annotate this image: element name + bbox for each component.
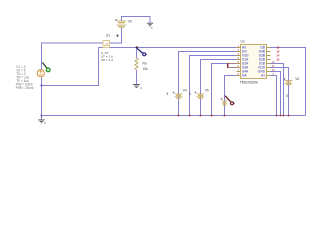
svg-text:5: 5 (189, 92, 191, 96)
svg-text:A1: A1 (261, 74, 265, 78)
svg-text:TMUX6209: TMUX6209 (240, 80, 258, 84)
svg-text:DA: DA (242, 74, 247, 78)
svg-text:U1: U1 (241, 40, 246, 44)
svg-text:PER = 20ms: PER = 20ms (16, 86, 34, 90)
svg-text:V4: V4 (183, 89, 187, 93)
svg-text:13: 13 (276, 58, 280, 62)
svg-text:Ra: Ra (143, 61, 147, 65)
svg-text:UH = 1.0: UH = 1.0 (101, 58, 114, 62)
svg-text:V3: V3 (128, 20, 132, 24)
svg-text:10k: 10k (143, 67, 149, 71)
svg-text:S1: S1 (106, 33, 110, 37)
svg-text:V6: V6 (295, 77, 299, 81)
svg-text:5: 5 (286, 94, 288, 98)
svg-text:V5: V5 (205, 89, 209, 93)
svg-text:5: 5 (167, 92, 169, 96)
